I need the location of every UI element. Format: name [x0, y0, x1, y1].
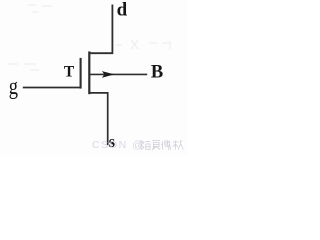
- svg-text:B: B: [151, 63, 163, 83]
- svg-text:d: d: [117, 0, 128, 20]
- svg-text:CSDN @: CSDN @: [92, 139, 144, 151]
- svg-text:T: T: [64, 63, 75, 80]
- svg-text:g: g: [9, 73, 18, 100]
